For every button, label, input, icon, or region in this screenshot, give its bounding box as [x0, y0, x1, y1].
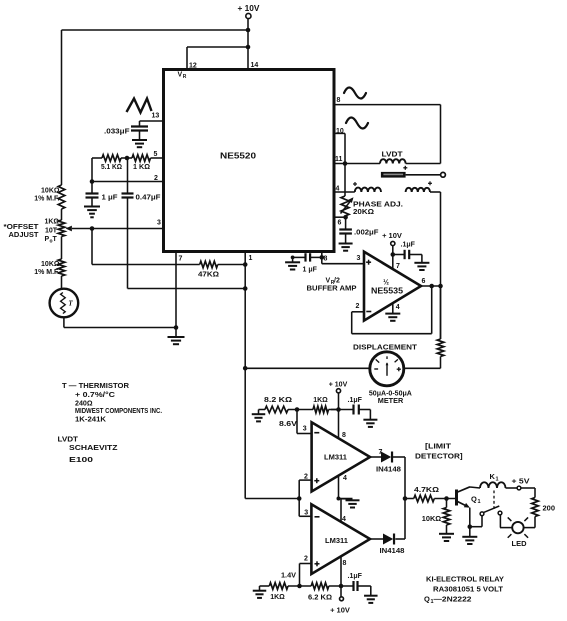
svg-text:3: 3: [304, 510, 308, 517]
svg-text:4: 4: [336, 186, 340, 193]
svg-text:10T: 10T: [45, 228, 58, 235]
svg-text:+ 10V: + 10V: [382, 231, 402, 240]
svg-text:10KΩ: 10KΩ: [422, 516, 442, 523]
svg-text:7: 7: [179, 256, 183, 263]
svg-text:8: 8: [343, 560, 347, 567]
svg-text:14: 14: [251, 62, 259, 69]
svg-text:BUFFER AMP: BUFFER AMP: [307, 284, 357, 293]
svg-text:3: 3: [303, 426, 307, 433]
svg-text:METER: METER: [378, 398, 404, 405]
svg-text:1KΩ: 1KΩ: [44, 219, 59, 226]
svg-text:T: T: [53, 236, 58, 243]
svg-text:LVDT: LVDT: [382, 150, 403, 159]
svg-text:V: V: [178, 72, 183, 79]
svg-text:6: 6: [422, 278, 426, 285]
svg-text:5.1 KΩ: 5.1 KΩ: [101, 164, 122, 171]
svg-text:1 KΩ: 1 KΩ: [133, 164, 150, 171]
svg-text:NE5535: NE5535: [371, 287, 404, 296]
svg-text:.1μF: .1μF: [348, 573, 363, 580]
svg-text:1% M.F.: 1% M.F.: [34, 269, 59, 276]
svg-text:SCHAEVITZ: SCHAEVITZ: [69, 443, 118, 452]
svg-text:E100: E100: [69, 455, 93, 464]
svg-text:RA3081051 5 VOLT: RA3081051 5 VOLT: [433, 585, 503, 594]
svg-text:1KΩ: 1KΩ: [313, 397, 328, 404]
svg-text:1: 1: [478, 499, 481, 505]
svg-text:4: 4: [343, 475, 347, 482]
svg-text:.002μF: .002μF: [354, 228, 379, 237]
svg-text:8: 8: [324, 256, 328, 263]
svg-text:1% M.F.: 1% M.F.: [34, 196, 59, 203]
svg-text:0.47μF: 0.47μF: [136, 195, 162, 202]
svg-text:47KΩ: 47KΩ: [198, 272, 219, 279]
svg-text:IN4148: IN4148: [380, 548, 405, 555]
svg-text:5: 5: [154, 151, 158, 158]
svg-text:.033μF: .033μF: [104, 129, 130, 136]
svg-text:4: 4: [396, 304, 400, 311]
svg-text:1: 1: [249, 255, 253, 262]
svg-text:10: 10: [336, 128, 344, 135]
svg-text:2: 2: [356, 303, 360, 310]
svg-text:.1μF: .1μF: [401, 242, 416, 249]
svg-text:.1μF: .1μF: [348, 397, 363, 404]
svg-text:+ 10V: + 10V: [329, 382, 348, 389]
svg-text:6: 6: [338, 220, 342, 227]
svg-text:LM311: LM311: [325, 536, 348, 545]
svg-text:1.4V: 1.4V: [281, 573, 296, 580]
svg-text:1KΩ: 1KΩ: [270, 594, 285, 601]
svg-text:NE5520: NE5520: [220, 152, 257, 161]
svg-text:+ 10V: + 10V: [238, 4, 261, 13]
svg-text:6.2 KΩ: 6.2 KΩ: [308, 595, 332, 602]
svg-text:½: ½: [383, 279, 389, 287]
svg-text:DISPLACEMENT: DISPLACEMENT: [353, 343, 417, 352]
svg-text:1 μF: 1 μF: [303, 267, 318, 274]
svg-text:LED: LED: [512, 541, 527, 548]
svg-text:T — THERMISTOR: T — THERMISTOR: [62, 381, 130, 390]
svg-text:8.2 KΩ: 8.2 KΩ: [264, 397, 292, 404]
svg-text:11: 11: [335, 156, 343, 163]
svg-text:20KΩ: 20KΩ: [353, 207, 374, 216]
svg-text:—2N2222: —2N2222: [434, 595, 472, 604]
svg-text:4.7KΩ: 4.7KΩ: [414, 487, 439, 494]
svg-text:IN4148: IN4148: [376, 467, 401, 474]
svg-text:50μA-0-50μA: 50μA-0-50μA: [369, 391, 412, 398]
svg-text:8: 8: [342, 432, 346, 439]
svg-text:*OFFSET: *OFFSET: [4, 224, 40, 231]
svg-text:T: T: [68, 300, 73, 308]
svg-text:+ 5V: + 5V: [512, 479, 530, 486]
svg-text:ADJUST: ADJUST: [9, 232, 40, 239]
svg-text:1K-241K: 1K-241K: [75, 415, 107, 424]
svg-text:3: 3: [157, 220, 161, 227]
svg-text:LM311: LM311: [324, 453, 347, 462]
svg-text:1 μF: 1 μF: [102, 195, 119, 202]
svg-text:R: R: [183, 74, 187, 80]
svg-text:+ 10V: + 10V: [330, 606, 350, 615]
svg-text:2: 2: [304, 556, 308, 563]
svg-text:KI-ELECTROL RELAY: KI-ELECTROL RELAY: [426, 575, 504, 584]
svg-text:3: 3: [357, 255, 361, 262]
svg-text:8: 8: [337, 97, 341, 104]
svg-text:13: 13: [152, 113, 160, 120]
svg-text:8.6V: 8.6V: [279, 421, 297, 428]
svg-text:Q: Q: [424, 595, 430, 604]
svg-text:7: 7: [396, 263, 400, 270]
svg-text:10KΩ: 10KΩ: [41, 188, 60, 195]
svg-text:1: 1: [496, 477, 499, 483]
svg-text:Q: Q: [471, 495, 477, 504]
svg-text:2: 2: [154, 175, 158, 182]
svg-text:DETECTOR]: DETECTOR]: [415, 452, 463, 461]
svg-text:[LIMIT: [LIMIT: [425, 442, 451, 451]
svg-text:10KΩ: 10KΩ: [41, 261, 60, 268]
svg-text:4: 4: [342, 516, 346, 523]
svg-text:200: 200: [543, 506, 556, 513]
